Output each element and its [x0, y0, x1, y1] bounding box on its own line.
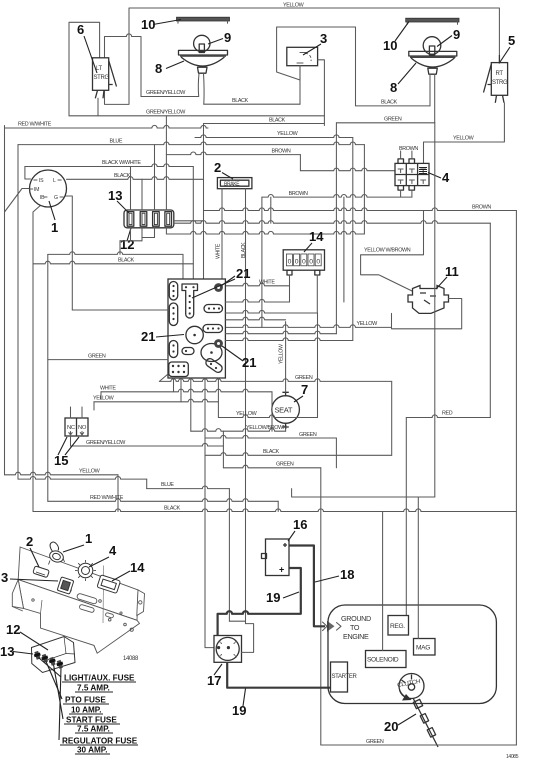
svg-text:YELLOW: YELLOW	[79, 468, 101, 474]
wire pointer 10 right	[395, 22, 409, 42]
wire block21 stub a	[159, 374, 168, 381]
wire pointer 8 right	[398, 63, 416, 84]
svg-text:BLACK: BLACK	[114, 173, 131, 179]
wire WHITE wire nc stub	[100, 392, 102, 399]
wire wire 19 conn17 to starter	[227, 662, 336, 687]
wire pointer 2 panel	[30, 548, 39, 567]
wire yellow top rail from lamp circuit to RT STRG	[105, 8, 500, 104]
wire conn4 top pin stubs	[401, 151, 412, 159]
wire pointer 11	[436, 277, 447, 289]
wire vertical x278	[277, 501, 279, 511]
wire fuse bus y234	[166, 231, 364, 234]
wire BLUE wire bottom	[147, 486, 230, 489]
wire GREEN wire right lamp	[336, 122, 434, 124]
wire pointer 4 conn	[428, 173, 441, 179]
wire WHITE wire meter	[225, 283, 289, 286]
wire pointer 13 holder	[13, 652, 33, 655]
wire nc pin top	[70, 407, 72, 418]
wire WHITE wire nc	[101, 389, 272, 392]
wire pointer 20	[398, 714, 416, 725]
svg-text:GROUND: GROUND	[341, 614, 371, 623]
wire pointer 15 a	[58, 437, 67, 455]
svg-text:YELLOW/BROWN: YELLOW/BROWN	[246, 425, 287, 431]
wire BLACK W/WHITE bus	[25, 164, 193, 167]
wire BLACK wire under left lamp	[204, 103, 300, 105]
wire pointer 15 b	[65, 437, 79, 455]
svg-text:RED W/WHITE: RED W/WHITE	[90, 495, 124, 501]
svg-text:21: 21	[242, 355, 256, 370]
svg-text:YELLOW: YELLOW	[283, 3, 305, 9]
wire box6 bottom pin to green/yellow bus	[97, 98, 99, 116]
wire vertical x146 blue	[146, 479, 148, 489]
svg-text:BLUE: BLUE	[110, 138, 123, 144]
headlight 8 (left)	[179, 50, 228, 55]
svg-text:12: 12	[6, 622, 20, 637]
wire RED W/WHITE bottom	[48, 499, 278, 502]
wire wire box6 top pin to left lamp	[105, 34, 142, 97]
svg-text:13: 13	[0, 644, 14, 659]
wire fuse pin top 1	[130, 167, 132, 211]
svg-text:4: 4	[442, 170, 450, 185]
ground arrow	[327, 621, 335, 632]
wire BROWN wire conn4 bottom	[262, 194, 412, 197]
block21 circle G	[186, 326, 203, 343]
wire vertical RED W/WHITE left	[4, 126, 6, 475]
wire vertical green drop	[391, 381, 393, 455]
wire wire y254	[48, 252, 183, 255]
engine outline	[328, 605, 496, 704]
wire GREEN/YELLOW bus 2	[69, 115, 324, 117]
wire no pin top	[81, 407, 83, 418]
wire pointer 8 left	[166, 61, 184, 69]
wire pointer 2 brake	[222, 173, 233, 180]
svg-text:LIGHT/AUX. FUSE: LIGHT/AUX. FUSE	[64, 674, 135, 683]
wire vertical x272	[271, 392, 273, 431]
connector 4 tabs	[398, 159, 415, 190]
wire wire box3 outer loop	[277, 27, 430, 106]
wire wire box3 bottom pin black	[299, 66, 301, 105]
wire fuse pin top 4	[165, 116, 167, 210]
wire pointer 9 left	[208, 39, 223, 45]
svg-text:14088: 14088	[123, 656, 139, 662]
block21 oval F diagonal	[204, 357, 223, 374]
panel hour meter 14	[97, 575, 121, 594]
wire pair left lamp	[198, 74, 204, 105]
wire conn4 bottom pin stubs	[401, 190, 412, 197]
wire YELLOW wire mid	[195, 135, 353, 138]
svg-text:BLUE: BLUE	[161, 482, 174, 488]
wire pointer 13 fuses	[117, 201, 129, 213]
wire GREEN wire low	[223, 465, 320, 468]
svg-text:RT: RT	[496, 71, 504, 77]
light bar 10 (right)	[406, 18, 459, 22]
fuse holder pin 2	[42, 654, 48, 663]
svg-text:TO: TO	[350, 623, 360, 632]
wire pointer 19 lower	[243, 689, 246, 707]
svg-text:BLACK: BLACK	[164, 505, 181, 511]
svg-text:NO: NO	[78, 425, 87, 431]
wire YELLOW/BROWN wire	[191, 429, 286, 432]
REG box	[388, 616, 409, 636]
wire BLACK wire mid	[204, 123, 325, 125]
headlight 8 (right)	[409, 51, 457, 56]
wire vertical red to reg	[405, 418, 407, 616]
wire pointer 10 left	[153, 20, 181, 25]
wire pointer 9 right	[437, 36, 452, 47]
svg-text:WHITE: WHITE	[100, 386, 116, 392]
wire vertical x270	[270, 197, 272, 223]
wire YELLOW W/BROWN wire	[361, 211, 424, 292]
svg-text:7.5 AMP.: 7.5 AMP.	[77, 725, 110, 734]
svg-text:BLACK: BLACK	[263, 449, 280, 455]
wire GREEN wire bottom border	[321, 744, 517, 746]
wire pointer 21 top a	[221, 276, 235, 286]
light bar 10 (left)	[177, 17, 230, 21]
wire pointer 21 left	[156, 335, 184, 338]
svg-text:SEAT: SEAT	[275, 406, 293, 415]
wire block21 stub b	[173, 378, 175, 392]
svg-text:3: 3	[1, 570, 8, 585]
svg-text:WHITE: WHITE	[216, 243, 222, 259]
seat switch 7	[272, 396, 300, 424]
wire fuse bottom wire b	[120, 240, 142, 242]
svg-text:BROWN: BROWN	[272, 148, 291, 154]
svg-text:BROWN: BROWN	[472, 204, 491, 210]
svg-text:REG.: REG.	[390, 623, 405, 630]
wire fuse right wire a	[174, 220, 204, 222]
wire YELLOW wire nc stub	[93, 402, 95, 410]
svg-text:21: 21	[141, 329, 155, 344]
wire pointer 1 panel	[63, 545, 84, 552]
connector 4	[395, 163, 429, 185]
wire pointer 6	[84, 36, 97, 73]
block21 grommet top	[214, 283, 223, 292]
wire vertical blue to box17	[228, 489, 230, 622]
svg-text:8: 8	[155, 61, 162, 76]
wire BROWN bus right	[204, 208, 517, 211]
block21 small oval	[182, 348, 194, 355]
MAG box	[414, 639, 436, 656]
svg-text:GREEN/YELLOW: GREEN/YELLOW	[146, 90, 186, 96]
wire pointer 21 top b	[192, 279, 235, 298]
wire stack wire 1	[225, 299, 289, 302]
svg-text:4: 4	[109, 543, 117, 558]
block21 oval D	[204, 305, 223, 313]
svg-text:BLACK W/WHITE: BLACK W/WHITE	[102, 160, 141, 166]
svg-text:YELLOW: YELLOW	[279, 344, 285, 364]
SOLENOID box	[366, 651, 407, 668]
wire stub into block21 a	[182, 254, 184, 279]
svg-text:BROWN: BROWN	[399, 146, 418, 152]
wire BROWN into conn4	[300, 168, 395, 171]
svg-text:STRG: STRG	[94, 75, 110, 81]
wire fuse bottom wire a	[142, 237, 155, 239]
svg-text:3: 3	[320, 31, 327, 46]
svg-text:6: 6	[77, 22, 84, 37]
panel slot 3	[57, 577, 74, 594]
wire YELLOW wire nc	[94, 399, 218, 402]
svg-text:10 AMP.: 10 AMP.	[71, 706, 102, 715]
wire wire left mid vertical	[47, 254, 49, 501]
wire pointer 18	[315, 576, 339, 582]
svg-text:YELLOW: YELLOW	[236, 411, 258, 417]
wire vertical x364 blue drop	[363, 145, 365, 234]
switch 15 NC/NO	[65, 418, 88, 436]
connector block 21	[168, 279, 225, 378]
wire YELLOW wire bottom left	[5, 472, 119, 475]
wire vertical black wwhite into block21	[192, 167, 194, 280]
wire BLACK wire seat	[205, 453, 392, 456]
wire BLACK wire bottom	[33, 509, 516, 512]
svg-text:19: 19	[232, 703, 246, 718]
svg-text:LT: LT	[96, 66, 103, 72]
wire wire 19 battery to conn17	[218, 568, 301, 641]
svg-text:20: 20	[384, 719, 398, 734]
relay 3	[287, 47, 318, 65]
svg-text:NC: NC	[67, 425, 75, 431]
wire pointer 12 fuses	[127, 228, 131, 241]
wire pointer 1 ignition	[49, 201, 55, 220]
wire pointer 7 seat	[294, 396, 303, 402]
STARTER box	[331, 662, 348, 692]
ignition switch 1	[30, 170, 67, 207]
wire seat top wire	[285, 322, 287, 393]
svg-text:0: 0	[302, 259, 306, 266]
svg-text:BRAKE: BRAKE	[224, 182, 240, 188]
svg-text:REGULATOR FUSE: REGULATOR FUSE	[62, 737, 138, 746]
wire wire IM terminal diagonal	[5, 189, 30, 213]
wire wire box3 right pin	[318, 60, 325, 126]
svg-text:9: 9	[224, 30, 231, 45]
svg-text:START FUSE: START FUSE	[66, 716, 117, 725]
wire RED wire	[406, 415, 490, 418]
wire BROWN jog	[299, 155, 301, 171]
hour meter 14	[283, 250, 324, 270]
wire fuse pin top 3	[154, 145, 156, 210]
wire pointer 14 meter	[304, 243, 312, 252]
wire left loop wire box6 to green/yellow bus	[69, 22, 100, 116]
svg-text:IM: IM	[34, 187, 39, 193]
CLUTCH symbol	[399, 674, 424, 699]
wire vertical red right	[489, 223, 491, 417]
panel key switch 1	[48, 542, 65, 564]
block21 oval E	[203, 325, 223, 333]
svg-text:STRG: STRG	[492, 80, 508, 86]
block21 oval A	[169, 282, 177, 301]
wire GREEN wire seat top	[159, 379, 391, 382]
svg-text:YELLOW W/BROWN: YELLOW W/BROWN	[364, 247, 411, 253]
wire brake pin left	[221, 189, 223, 279]
svg-text:0: 0	[288, 259, 292, 266]
svg-text:2: 2	[26, 534, 33, 549]
wire stack wire 2	[225, 310, 317, 313]
instrument panel illustration	[12, 547, 144, 653]
wire meter left foot wire	[289, 275, 291, 302]
block21 T connector	[182, 284, 198, 318]
block21 grommet bottom	[214, 339, 223, 348]
wire YELLOW wire right	[218, 415, 317, 418]
wire switch 11 right loop	[392, 299, 462, 329]
wire GREEN wire block21 left	[48, 359, 168, 361]
wire pointer 5	[499, 47, 510, 64]
svg-text:GREEN: GREEN	[299, 432, 317, 438]
wire vertical trunk left of block 21	[203, 124, 205, 280]
wire GREEN/YELLOW wire nc	[71, 443, 224, 446]
wire BLACK wire ignition L	[67, 177, 204, 180]
svg-text:GREEN/YELLOW: GREEN/YELLOW	[146, 109, 186, 115]
wire stack wire 6	[225, 338, 352, 341]
fuse slot 2	[140, 212, 147, 227]
panel PTO switch 4	[75, 560, 96, 581]
svg-text:YELLOW: YELLOW	[93, 396, 115, 402]
svg-text:BLACK: BLACK	[241, 242, 247, 258]
wire wire green right lamp down	[434, 123, 436, 497]
wire vertical x343	[343, 197, 345, 302]
panel switch 2	[33, 566, 50, 578]
wire fuse right bus long	[174, 221, 491, 224]
wire block21 stub c	[180, 378, 182, 402]
wire wire into block21 left	[72, 309, 168, 311]
svg-text:PTO FUSE: PTO FUSE	[65, 696, 106, 705]
wire vertical x352 yellow drop	[352, 138, 354, 341]
svg-text:SOLENOID: SOLENOID	[367, 657, 399, 664]
block21 oval B	[169, 303, 177, 326]
wire pointer 21 bottom	[222, 346, 243, 361]
svg-text:1: 1	[85, 531, 92, 546]
svg-text:30 AMP.: 30 AMP.	[77, 746, 108, 755]
wire wire wrap box17 b	[242, 624, 254, 653]
svg-text:14085: 14085	[506, 754, 519, 760]
fuse slot 4	[165, 212, 172, 227]
svg-text:GREEN: GREEN	[295, 375, 313, 381]
wire vertical blue-yellow left	[17, 145, 19, 480]
bulb 9 (left)	[194, 35, 210, 51]
wire block21 stub d	[190, 378, 192, 431]
svg-text:7.5 AMP.: 7.5 AMP.	[77, 684, 110, 693]
svg-text:BLACK: BLACK	[232, 98, 249, 104]
brake switch 2	[217, 178, 252, 189]
wire pointer 14 panel	[112, 571, 130, 581]
wire nc pin bottom	[70, 436, 72, 446]
wire pair right lamp	[430, 74, 435, 123]
wire fuse pin4 bottom drop	[165, 228, 167, 234]
wire wire mag top	[417, 497, 419, 639]
svg-text:RED W/WHITE: RED W/WHITE	[18, 122, 52, 128]
wire vertical x317 drop	[317, 313, 319, 418]
bulb 9 (right)	[423, 37, 441, 55]
svg-text:0: 0	[309, 259, 313, 266]
svg-text:GREEN: GREEN	[276, 461, 294, 467]
svg-text:GREEN: GREEN	[88, 353, 106, 359]
wire GREEN wire seat low	[205, 435, 336, 438]
svg-text:GREEN: GREEN	[366, 739, 384, 745]
svg-text:YELLOW: YELLOW	[357, 321, 379, 327]
switch 5 RT STRG	[491, 63, 507, 96]
wire pointer 3 panel	[10, 579, 58, 581]
wire vertical x223 green	[222, 431, 224, 468]
svg-text:0: 0	[295, 259, 299, 266]
svg-text:14: 14	[309, 229, 324, 244]
wire BROWN left drop	[261, 197, 263, 327]
wire pointer 16	[288, 531, 295, 541]
svg-text:17: 17	[207, 673, 221, 688]
wire GREEN/YELLOW wire 1	[141, 96, 199, 98]
wire stack wire 5	[225, 331, 336, 334]
wire vertical x336 low	[335, 438, 337, 468]
fuse holder pin 4	[57, 660, 63, 669]
block21 bottom left pad	[169, 362, 189, 377]
svg-text:BLACK: BLACK	[269, 118, 286, 124]
wire wire blue right	[292, 489, 435, 497]
connector 17	[214, 636, 242, 663]
svg-text:11: 11	[445, 264, 459, 279]
svg-text:21: 21	[236, 266, 250, 281]
wire RED W/WHITE bus	[5, 125, 209, 128]
wire fuse pin top 2	[141, 179, 143, 210]
svg-text:18: 18	[340, 567, 354, 582]
battery 16	[266, 539, 290, 576]
wire brake pin right	[245, 189, 247, 624]
wire wire G terminal	[57, 196, 73, 310]
svg-text:BLACK: BLACK	[381, 100, 398, 106]
svg-text:GREEN/YELLOW: GREEN/YELLOW	[86, 440, 126, 446]
wire wire RT STRG bottom to yellow	[424, 103, 505, 163]
svg-text:8: 8	[390, 80, 397, 95]
svg-text:13: 13	[108, 188, 122, 203]
wire block21 trunk below box17	[205, 378, 214, 648]
wire vertical x118	[117, 475, 119, 512]
svg-text:WHITE: WHITE	[259, 280, 275, 286]
fuse holder pin 3	[49, 657, 55, 666]
wire wire IS terminal	[25, 167, 31, 180]
wire right border	[515, 211, 517, 746]
wire BROWN wire upper	[166, 152, 300, 155]
wire seat bottom wire	[285, 427, 287, 431]
svg-text:BROWN: BROWN	[289, 191, 308, 197]
svg-text:STARTER: STARTER	[332, 674, 358, 680]
svg-text:+: +	[279, 565, 284, 575]
wire fuse bottom left drop	[119, 241, 121, 255]
svg-text:9: 9	[453, 27, 460, 42]
wire pointer 4 panel	[89, 557, 109, 567]
svg-text:YELLOW: YELLOW	[277, 131, 299, 137]
wire YELLOW wire seat area	[225, 325, 391, 328]
wire pointer 3	[303, 44, 321, 55]
block21 big oval H	[201, 344, 222, 362]
svg-text:15: 15	[54, 453, 68, 468]
svg-text:2: 2	[214, 160, 221, 175]
wire wire y479	[18, 477, 147, 480]
switch 11	[408, 286, 449, 314]
svg-text:14: 14	[130, 560, 145, 575]
wire meter right foot wire	[316, 275, 318, 313]
wire wire 18 battery to ground	[289, 546, 325, 627]
svg-text:19: 19	[266, 590, 280, 605]
svg-text:MAG: MAG	[416, 645, 430, 652]
svg-text:5: 5	[508, 33, 515, 48]
fuse holder pin 1	[34, 651, 40, 660]
wire wire IB terminal down	[33, 205, 42, 512]
switch 6 LT STRG	[93, 58, 109, 91]
wire wire solenoid top	[382, 512, 384, 651]
wire pointer 17	[214, 664, 222, 675]
wire block21 stub e	[217, 378, 219, 418]
spark plug wire 20	[413, 698, 438, 747]
wire wire wrap box17 a	[229, 620, 245, 622]
svg-text:YELLOW: YELLOW	[453, 136, 475, 142]
fuse block 12	[124, 210, 174, 228]
fuse slot 3	[153, 212, 160, 227]
